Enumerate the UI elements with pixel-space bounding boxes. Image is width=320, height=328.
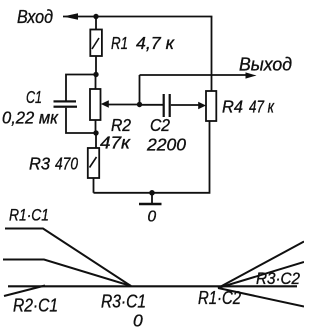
svg-text:0,22 мк: 0,22 мк xyxy=(2,108,59,128)
node R2/R3/C1 junction xyxy=(93,130,98,135)
node R1/R2/C1 junction xyxy=(93,72,98,77)
input arrow xyxy=(63,13,78,20)
wire R2 bottom lead xyxy=(95,120,97,133)
node ground junction xyxy=(149,190,155,196)
wire R3 bottom lead xyxy=(93,178,95,193)
wire top rail vertical drop to R4 xyxy=(211,17,213,92)
svg-text:Выход: Выход xyxy=(239,55,292,75)
wire junction to C2 xyxy=(140,104,164,106)
svg-text:R3·C1: R3·C1 xyxy=(101,291,146,312)
output arrow xyxy=(246,72,257,78)
slash mark inside R1 xyxy=(92,38,99,49)
svg-text:47 к: 47 к xyxy=(249,97,275,117)
wire R2 wiper to C2 junction xyxy=(108,104,140,106)
wire R1 bottom lead xyxy=(95,56,97,75)
potentiometer R4 xyxy=(206,91,216,121)
svg-text:0: 0 xyxy=(148,209,157,226)
node input junction xyxy=(93,14,98,19)
curve treble boost steep xyxy=(218,242,304,289)
svg-text:R1·C1: R1·C1 xyxy=(9,206,49,225)
R4 wiper arrow xyxy=(198,102,206,110)
wire C1 bottom lead xyxy=(66,108,96,133)
svg-text:C2: C2 xyxy=(150,115,170,135)
wire R1 top lead xyxy=(95,17,97,30)
slash mark inside R3 xyxy=(90,157,97,168)
resistor R3 xyxy=(88,148,99,178)
wire R3 top lead xyxy=(95,133,97,148)
svg-text:C1: C1 xyxy=(26,87,42,107)
svg-text:4,7 к: 4,7 к xyxy=(136,33,175,53)
svg-text:R3: R3 xyxy=(29,154,50,174)
svg-text:Вход: Вход xyxy=(17,7,53,27)
wire junction up xyxy=(139,75,141,105)
curve middle bass boost xyxy=(3,260,131,287)
svg-text:R4: R4 xyxy=(222,97,243,117)
resistor R1 xyxy=(90,30,102,57)
potentiometer R2 xyxy=(90,89,101,120)
node wiper/C2/output junction xyxy=(137,102,142,107)
svg-text:0: 0 xyxy=(133,311,143,328)
wire to C1 top xyxy=(66,75,96,101)
svg-text:2200: 2200 xyxy=(146,135,186,155)
ground xyxy=(151,193,153,204)
curve R2-C1 bass cut xyxy=(4,286,45,297)
capacitor C1 xyxy=(54,100,77,102)
svg-text:R1: R1 xyxy=(111,33,128,53)
wire top rail horizontal xyxy=(63,16,212,18)
svg-text:470: 470 xyxy=(55,154,78,174)
wire R4 bottom lead xyxy=(94,121,210,193)
svg-text:47к: 47к xyxy=(100,133,131,153)
curve treble cut xyxy=(218,288,304,307)
wire R2 top lead xyxy=(95,75,97,90)
R2 wiper arrow xyxy=(101,100,109,108)
svg-text:R1·C2: R1·C2 xyxy=(198,288,241,308)
wire C2 to R4 wiper xyxy=(171,104,200,106)
svg-text:R2·C1: R2·C1 xyxy=(13,296,58,316)
svg-text:R3·C2: R3·C2 xyxy=(256,269,300,288)
wire output line xyxy=(140,74,248,76)
curve treble boost shallow xyxy=(218,262,304,288)
graph baseline xyxy=(8,285,297,287)
curve R1-C1 bass boost xyxy=(5,229,131,287)
capacitor C2 xyxy=(163,94,165,117)
